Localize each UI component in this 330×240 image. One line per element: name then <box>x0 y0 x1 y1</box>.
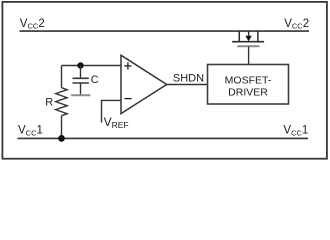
node junction dot on VCC1 rail <box>58 135 65 142</box>
wire capacitor top lead <box>80 66 82 78</box>
wire comparator output SHDN <box>167 84 208 86</box>
capacitor C <box>73 78 89 83</box>
transistor Q1: source terminal <box>257 31 259 42</box>
capacitor bottom terminal bar <box>71 94 90 96</box>
pin minus symbol <box>125 98 132 100</box>
svg-text:SHDN: SHDN <box>173 73 204 85</box>
svg-text:C: C <box>91 74 99 86</box>
wire resistor bottom lead <box>61 116 63 139</box>
MOSFET-DRIVER box U2 <box>208 65 289 105</box>
transistor Q1: channel bar <box>232 41 264 43</box>
transistor Q1 pass MOSFET: drain terminal <box>238 31 240 42</box>
node junction dot at capacitor tap <box>77 62 83 68</box>
op-amp U1 comparator <box>121 55 167 113</box>
svg-text:MOSFET-: MOSFET- <box>225 74 272 86</box>
wire capacitor bottom lead <box>80 83 82 95</box>
pin plus symbol <box>124 62 131 69</box>
wire gate to driver <box>248 46 250 64</box>
label MOSFET-DRIVER <box>225 74 272 98</box>
net VCC1 rail (bottom) <box>18 137 309 139</box>
net VCC2 rail (top) <box>20 30 310 32</box>
border frame <box>2 2 327 159</box>
svg-text:R: R <box>45 96 53 108</box>
wire inverting input to VREF <box>102 100 122 122</box>
wire resistor top lead <box>61 66 63 88</box>
svg-text:DRIVER: DRIVER <box>228 86 268 98</box>
resistor R <box>56 88 67 116</box>
transistor Q1: gate bar <box>237 45 259 47</box>
wire noninverting input node <box>62 65 122 67</box>
transistor Q1: bulk arrow <box>245 31 251 41</box>
